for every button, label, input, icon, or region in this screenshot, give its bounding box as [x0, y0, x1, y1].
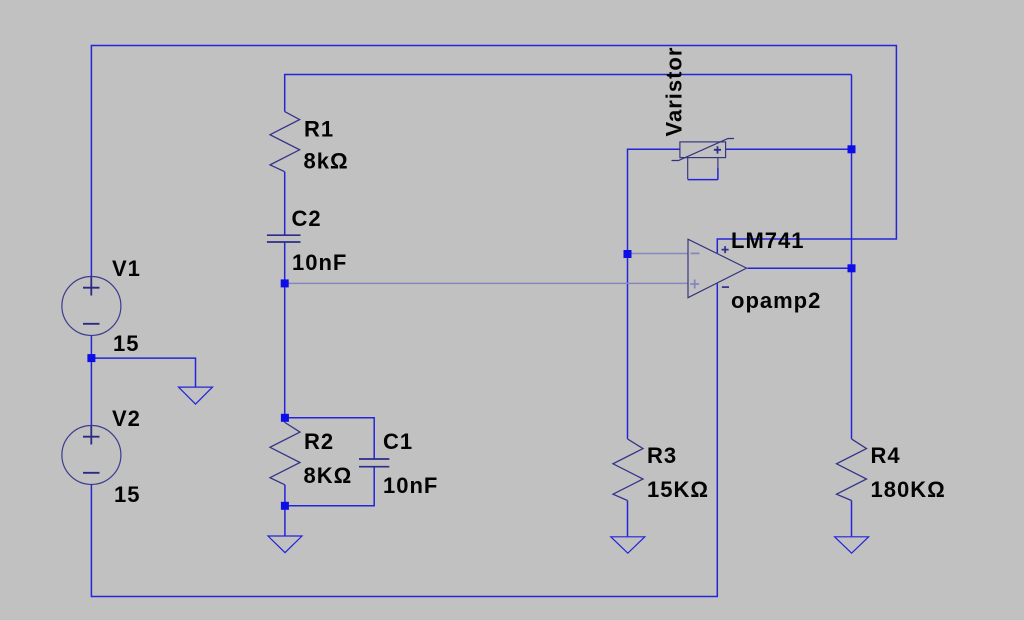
node opamp output [848, 264, 856, 272]
node C2 / +input [281, 279, 289, 287]
svg-text:V1: V1 [112, 256, 141, 281]
wire inverting input whisker [628, 253, 689, 255]
node R2 bottom [281, 502, 289, 510]
node varistor/feedback [848, 145, 856, 153]
wire feedback column x=851.5 [851, 75, 853, 439]
svg-text:8kΩ: 8kΩ [304, 149, 349, 174]
svg-text:C2: C2 [292, 206, 322, 231]
capacitor C1 [359, 429, 438, 498]
wire opamp output to feedback node [748, 267, 852, 269]
wire varistor right to feedback node [726, 148, 852, 150]
resistor R4 [837, 439, 946, 502]
wire node to ground stub [91, 358, 195, 387]
varistor [661, 47, 734, 180]
svg-text:8KΩ: 8KΩ [304, 463, 353, 488]
wire R4 to ground [851, 501, 853, 537]
ground below R4 [835, 537, 869, 553]
wire second rail R1 top to feedback column [285, 75, 852, 112]
svg-text:15: 15 [114, 482, 140, 507]
svg-text:C1: C1 [383, 429, 413, 454]
ground at V1/V2 node [179, 387, 213, 404]
wire R2 zigzag to bottom node to ground [284, 485, 286, 536]
capacitor C2 [267, 206, 347, 275]
wire noninverting input long run [285, 282, 688, 284]
voltage source V2 [62, 406, 141, 507]
ground below R2 [268, 536, 302, 553]
wire V2 bottom to bottom rail to opamp V- [91, 284, 717, 597]
node V1-V2 junction [87, 354, 95, 362]
svg-text:R3: R3 [647, 443, 677, 468]
svg-text:V2: V2 [112, 406, 141, 431]
resistor R1 [270, 112, 349, 174]
voltage source V1 [62, 256, 141, 356]
svg-text:LM741: LM741 [731, 228, 804, 253]
wire C2 to R2 top node [284, 242, 286, 423]
wire varistor left down to R3 [628, 149, 680, 439]
wire R1 to C2 [284, 172, 286, 236]
node R2 top [281, 414, 289, 422]
svg-text:Varistor: Varistor [661, 47, 686, 137]
node -input junction [624, 250, 632, 258]
op-amp U1 LM741 [688, 228, 821, 313]
svg-text:15KΩ: 15KΩ [647, 477, 709, 502]
svg-text:15: 15 [113, 331, 139, 356]
resistor R2 [270, 423, 352, 489]
ground below R3 [611, 537, 645, 553]
wire R3 to ground [627, 501, 629, 537]
svg-text:180KΩ: 180KΩ [871, 477, 946, 502]
svg-text:R2: R2 [304, 429, 334, 454]
svg-text:10nF: 10nF [383, 473, 438, 498]
resistor R3 [613, 439, 709, 502]
svg-text:R4: R4 [871, 443, 901, 468]
wire R2 top node to C1 top [285, 418, 374, 460]
svg-text:opamp2: opamp2 [731, 288, 821, 313]
wire C1 bottom to R2 bottom node [285, 466, 374, 506]
svg-text:R1: R1 [304, 117, 334, 142]
svg-text:10nF: 10nF [292, 250, 347, 275]
wire V1 bottom to V2 top [90, 335, 92, 426]
wire top rail from V1 to right side [91, 46, 896, 277]
